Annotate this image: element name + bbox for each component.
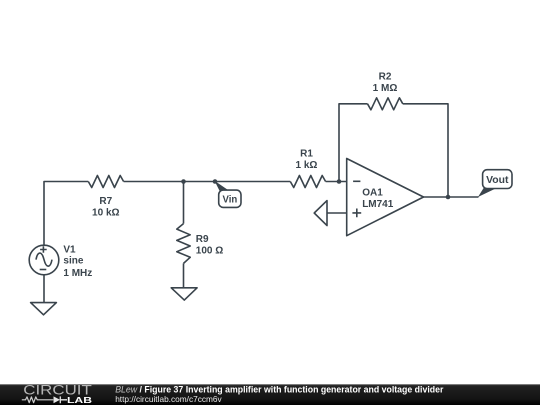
node junction feedback/inverting input [337, 179, 342, 184]
svg-text:R7: R7 [99, 196, 112, 207]
wire feedback right vertical [403, 104, 448, 197]
node Vin flag pointer [215, 181, 228, 193]
wire R9 bottom lead [183, 263, 185, 287]
wire feedback left vertical [339, 104, 368, 182]
svg-text:OA1: OA1 [362, 187, 383, 198]
wire from V1 top to main line corner [44, 182, 88, 246]
wire R9 top lead [183, 182, 185, 224]
svg-text:R2: R2 [379, 71, 392, 82]
wire V1 bottom lead [43, 275, 45, 303]
svg-text:R9: R9 [196, 234, 209, 245]
svg-text:10 kΩ: 10 kΩ [92, 208, 119, 219]
wire R7 to R1 [124, 181, 291, 183]
node Vin flag box [219, 190, 241, 207]
svg-text:1 kΩ: 1 kΩ [296, 160, 318, 171]
logo diode [54, 396, 61, 403]
node Vin dot [213, 179, 218, 184]
voltage source V1 plus sign [40, 246, 47, 253]
svg-text:http://circuitlab.com/c7ccm6v: http://circuitlab.com/c7ccm6v [115, 394, 222, 404]
svg-text:BLew / Figure 37 Inverting amp: BLew / Figure 37 Inverting amplifier wit… [115, 385, 444, 395]
svg-text:Vin: Vin [223, 194, 238, 205]
resistor R2 [368, 98, 403, 110]
svg-text:V1: V1 [63, 244, 76, 255]
footer bar [0, 384, 540, 405]
ground below R9 [171, 288, 197, 300]
svg-text:LM741: LM741 [362, 199, 394, 210]
ground sideways at non-inverting input [314, 201, 327, 226]
voltage source V1 sine wave [36, 253, 52, 266]
svg-text:R1: R1 [300, 148, 313, 159]
svg-text:100 Ω: 100 Ω [196, 245, 223, 256]
svg-text:sine: sine [63, 256, 83, 267]
resistor R7 [88, 176, 123, 188]
op-amp OA1 [347, 159, 424, 236]
voltage source V1 circle [29, 245, 59, 275]
resistor R1 [290, 176, 325, 188]
op-amp minus sign [353, 180, 360, 182]
svg-text:1 MΩ: 1 MΩ [373, 83, 398, 94]
svg-text:LAB: LAB [67, 395, 92, 405]
op-amp plus sign [352, 209, 361, 218]
node junction output/feedback [446, 195, 451, 200]
node Vout flag box [483, 170, 512, 189]
node Vout flag pointer [478, 188, 497, 198]
svg-text:1 MHz: 1 MHz [63, 268, 92, 279]
logo resistor squiggle [22, 397, 54, 403]
wire R1 to op-amp inverting input [326, 181, 347, 183]
resistor R9 [177, 224, 190, 264]
svg-text:Vout: Vout [486, 175, 509, 186]
voltage source V1 minus sign [40, 269, 47, 271]
node junction at R9 tap [181, 179, 186, 184]
ground below V1 [31, 303, 57, 315]
wire non-inverting input [327, 212, 347, 214]
wire op-amp output [424, 196, 479, 198]
